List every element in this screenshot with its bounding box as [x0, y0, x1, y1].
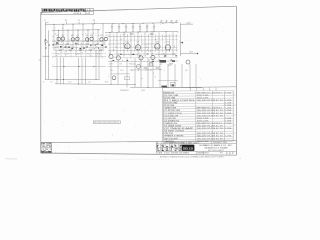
svg-text:1-1001: 1-1001: [225, 123, 232, 125]
svg-text:8: 8: [114, 122, 115, 124]
svg-text:R15: R15: [167, 42, 170, 44]
svg-text:REF PART NO. SOURCE C: REF PART NO. SOURCE C: [197, 91, 224, 94]
svg-text:.01: .01: [105, 47, 108, 49]
svg-text:REF PART NO. SOURCE C: REF PART NO. SOURCE C: [197, 107, 224, 110]
svg-text:CAPACITORS: CAPACITORS: [164, 107, 177, 110]
svg-text:R24: R24: [162, 54, 165, 56]
svg-text:C9: C9: [67, 54, 69, 56]
svg-text:6: 6: [43, 82, 44, 84]
svg-text:.1: .1: [165, 47, 167, 49]
svg-text:C6: C6: [100, 35, 102, 37]
svg-text:R1: R1: [65, 20, 67, 22]
svg-text:1-4: 1-4: [85, 10, 88, 12]
svg-text:.02: .02: [88, 82, 91, 84]
svg-text:MODEL 100 SERIES: MODEL 100 SERIES: [173, 153, 190, 155]
svg-text:SPEAKER: SPEAKER: [120, 89, 129, 92]
svg-text:Q3: Q3: [105, 35, 108, 37]
svg-text:C18: C18: [120, 70, 123, 72]
svg-text:Q1: Q1: [62, 35, 65, 37]
svg-text:7: 7: [233, 153, 234, 155]
svg-text:C16: C16: [159, 64, 162, 66]
svg-text:1-1001: 1-1001: [225, 128, 232, 130]
svg-text:100: 100: [119, 64, 122, 66]
svg-text:8: 8: [117, 122, 118, 124]
svg-text:Q7: Q7: [139, 54, 141, 56]
svg-text:8: 8: [99, 122, 100, 124]
svg-text:TRANSISTORS: TRANSISTORS: [164, 122, 178, 125]
svg-text:8: 8: [94, 122, 95, 124]
svg-text:8: 8: [112, 122, 113, 124]
svg-text:REF PART NO. SOURCE C: REF PART NO. SOURCE C: [197, 122, 224, 125]
svg-text:R4: R4: [93, 20, 95, 22]
svg-text:B+: B+: [51, 82, 53, 84]
svg-text:Q2: Q2: [86, 35, 89, 37]
svg-text:2-4: 2-4: [86, 13, 89, 15]
svg-text:C14: C14: [172, 54, 175, 56]
svg-text:SPEAKER 4 OHM PM: SPEAKER 4 OHM PM: [164, 135, 183, 138]
svg-text:R20: R20: [97, 54, 100, 56]
svg-text:Q9: Q9: [185, 70, 187, 72]
svg-text:R18: R18: [77, 54, 80, 56]
svg-text:.05: .05: [139, 64, 142, 66]
svg-text:AM RADIO CHASSIS MODEL 100-X: AM RADIO CHASSIS MODEL 100-X SCHEMATIC A…: [160, 155, 224, 158]
svg-text:3-61: 3-61: [166, 153, 170, 155]
svg-text:R2: R2: [57, 35, 59, 37]
svg-text:6-4 61 B: 6-4 61 B: [74, 13, 82, 15]
svg-text:R30: R30: [110, 70, 113, 72]
svg-text:PHOTOFACT SET 522: PHOTOFACT SET 522: [172, 141, 198, 144]
svg-text:R26: R26: [129, 64, 132, 66]
svg-text:C2: C2: [78, 20, 80, 22]
svg-text:1: 1: [227, 153, 228, 155]
svg-text:DELCO: DELCO: [183, 147, 194, 151]
svg-text:Q2 2N408 IF AMP: Q2 2N408 IF AMP: [164, 127, 194, 130]
svg-text:8: 8: [107, 122, 108, 124]
svg-text:1-1001: 1-1001: [225, 113, 232, 115]
svg-text:DIAL CORD ASSY: DIAL CORD ASSY: [164, 137, 179, 140]
svg-text:8: 8: [109, 122, 110, 124]
svg-text:8: 8: [97, 122, 98, 124]
svg-text:R28: R28: [149, 64, 152, 66]
svg-text:470: 470: [95, 47, 98, 49]
svg-text:8: 8: [104, 122, 105, 124]
svg-text:.05: .05: [87, 54, 90, 56]
svg-text:R33: R33: [105, 82, 108, 84]
svg-text:R12: R12: [126, 42, 129, 44]
svg-text:GND: GND: [141, 90, 146, 92]
svg-text:1-1001: 1-1001: [225, 136, 232, 138]
svg-text:Q4: Q4: [156, 42, 159, 44]
svg-text:4: 4: [230, 153, 231, 155]
svg-text:8: 8: [102, 122, 103, 124]
svg-text:FOLDER 7 1961: FOLDER 7 1961: [213, 142, 227, 144]
svg-text:C20: C20: [68, 82, 71, 84]
svg-text:Q8: Q8: [151, 54, 153, 56]
svg-text:Q6: Q6: [117, 54, 119, 56]
svg-text:+15V: +15V: [186, 22, 191, 24]
svg-text:Q5: Q5: [109, 54, 111, 56]
svg-text:.05: .05: [75, 47, 78, 49]
svg-text:J1: J1: [44, 20, 46, 22]
svg-text:C8: C8: [137, 42, 139, 44]
